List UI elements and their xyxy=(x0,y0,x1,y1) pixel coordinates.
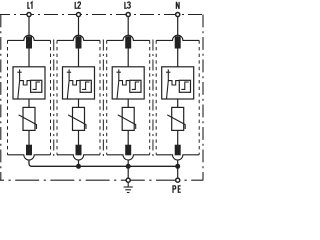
wire module 1 bottom to PE bus corner xyxy=(29,160,178,166)
module 1 top edge with plug contact arc xyxy=(8,35,51,40)
wire N terminal to module top xyxy=(177,17,179,37)
wire L1 terminal to module top xyxy=(28,17,30,37)
varistor RV3 body xyxy=(122,107,134,130)
wire blade to disconnector N xyxy=(177,48,179,66)
plug contact blade top L1 xyxy=(26,36,32,48)
enclosure border bottom dash-dot xyxy=(0,179,203,181)
disconnector switch blade F3 xyxy=(117,69,119,99)
thermal element tick F2 xyxy=(67,71,71,73)
indicator step glyph F2 xyxy=(82,82,89,89)
disconnector switch blade F1 xyxy=(18,69,20,99)
plug contact blade bottom L3 xyxy=(125,145,131,156)
varistor RV1 body xyxy=(23,107,35,130)
label N xyxy=(176,2,179,9)
thermal disconnector with status indicator F1 box xyxy=(13,67,45,99)
module 4 dashed enclosure right edge xyxy=(198,40,200,154)
wire varistor to bottom blade L2 xyxy=(78,130,80,145)
plug contact blade top L2 xyxy=(76,36,82,48)
status indicator window F2 xyxy=(80,80,91,92)
junction node on PE bus at x=177.7 xyxy=(175,164,180,169)
varistor RV2 diagonal stroke xyxy=(68,115,86,129)
thermal element tick F4 xyxy=(166,71,170,73)
thermal element tick F1 xyxy=(17,71,21,73)
indicator link square wave F1 xyxy=(20,81,31,85)
varistor RV4 diagonal stroke xyxy=(167,115,185,129)
module 2 dashed enclosure right edge xyxy=(99,40,101,154)
ground symbol bar 1 xyxy=(124,186,133,188)
indicator link square wave F2 xyxy=(69,81,80,85)
plug contact blade bottom L1 xyxy=(26,145,32,156)
status indicator window F3 xyxy=(130,80,141,92)
varistor RV3 diagonal stroke xyxy=(118,115,136,129)
module 2 dashed enclosure left edge xyxy=(56,40,58,154)
indicator step glyph F4 xyxy=(181,82,188,89)
wire bus to earth terminal xyxy=(127,166,129,178)
module 3 bottom edge with plug contact arc xyxy=(107,155,150,160)
thermal disconnector with status indicator F4 box xyxy=(162,67,194,99)
varistor RV1 diagonal stroke xyxy=(19,115,37,129)
thermal disconnector with status indicator F3 box xyxy=(112,67,144,99)
indicator link square wave F4 xyxy=(168,81,179,85)
terminal L1 circle xyxy=(27,12,31,16)
thermal disconnector with status indicator F2 box xyxy=(63,67,95,99)
earth terminal circle xyxy=(126,178,130,182)
PE terminal circle xyxy=(176,178,180,182)
wire disconnector to varistor N xyxy=(177,99,179,107)
module 4 bottom edge with plug contact arc xyxy=(156,155,199,160)
wire L3 terminal to module top xyxy=(127,17,129,37)
disconnector switch blade F2 xyxy=(67,69,69,99)
wire disconnector to varistor L3 xyxy=(127,99,129,107)
phase divider dash-dot 2 xyxy=(102,40,104,159)
wire module 4 bottom to bus xyxy=(177,160,179,166)
label PE xyxy=(173,186,181,193)
enclosure border top dash-dot xyxy=(0,14,203,16)
module 4 top edge with plug contact arc xyxy=(156,35,199,40)
junction node on PE bus at x=128.2 xyxy=(126,164,131,169)
varistor RV2 body xyxy=(73,107,85,130)
wire bus to PE terminal xyxy=(177,166,179,178)
disconnector switch blade F4 xyxy=(167,69,169,99)
status indicator window F4 xyxy=(179,80,190,92)
wire varistor to bottom blade L3 xyxy=(127,130,129,145)
ground symbol bar 2 xyxy=(125,189,131,191)
wire L2 terminal to module top xyxy=(78,17,80,37)
label L2 xyxy=(75,2,80,8)
indicator step glyph F1 xyxy=(33,82,40,89)
module 2 bottom edge with plug contact arc xyxy=(57,155,100,160)
plug contact blade top N xyxy=(175,36,181,48)
module 4 dashed enclosure left edge xyxy=(155,40,157,154)
plug contact blade bottom L2 xyxy=(76,145,82,156)
varistor RV4 body xyxy=(172,107,184,130)
wire disconnector to varistor L1 xyxy=(28,99,30,107)
indicator step glyph F3 xyxy=(132,82,139,89)
wire varistor to bottom blade N xyxy=(177,130,179,145)
module 3 top edge with plug contact arc xyxy=(107,35,150,40)
module 1 bottom edge with plug contact arc xyxy=(8,155,51,160)
wire blade to disconnector L1 xyxy=(28,48,30,66)
terminal N circle xyxy=(176,12,180,16)
wire disconnector to varistor L2 xyxy=(78,99,80,107)
thermal element tick F3 xyxy=(117,71,121,73)
plug contact blade top L3 xyxy=(125,36,131,48)
module 3 dashed enclosure right edge xyxy=(149,40,151,154)
phase divider dash-dot 1 xyxy=(53,40,55,159)
terminal L3 circle xyxy=(126,12,130,16)
module 3 dashed enclosure left edge xyxy=(106,40,108,154)
junction node on PE bus at x=78.5 xyxy=(76,164,81,169)
terminal L2 circle xyxy=(76,12,80,16)
module 1 dashed enclosure left edge xyxy=(7,40,9,154)
module 2 top edge with plug contact arc xyxy=(57,35,100,40)
indicator link square wave F3 xyxy=(119,81,130,85)
wire module 3 bottom to bus xyxy=(127,160,129,166)
enclosure border left dash-dot xyxy=(0,15,2,181)
label L1 xyxy=(28,2,32,9)
module 1 dashed enclosure right edge xyxy=(50,40,52,154)
label L3 xyxy=(125,2,130,8)
ground symbol stem xyxy=(127,183,129,187)
plug contact blade bottom N xyxy=(175,145,181,156)
ground symbol bar 3 xyxy=(127,192,130,194)
status indicator window F1 xyxy=(31,80,42,92)
wire blade to disconnector L3 xyxy=(127,48,129,66)
wire blade to disconnector L2 xyxy=(78,48,80,66)
enclosure border right dash-dot xyxy=(202,15,204,181)
wire module 2 bottom to bus xyxy=(78,160,80,166)
wire varistor to bottom blade L1 xyxy=(28,130,30,145)
phase divider dash-dot 3 xyxy=(152,40,154,159)
